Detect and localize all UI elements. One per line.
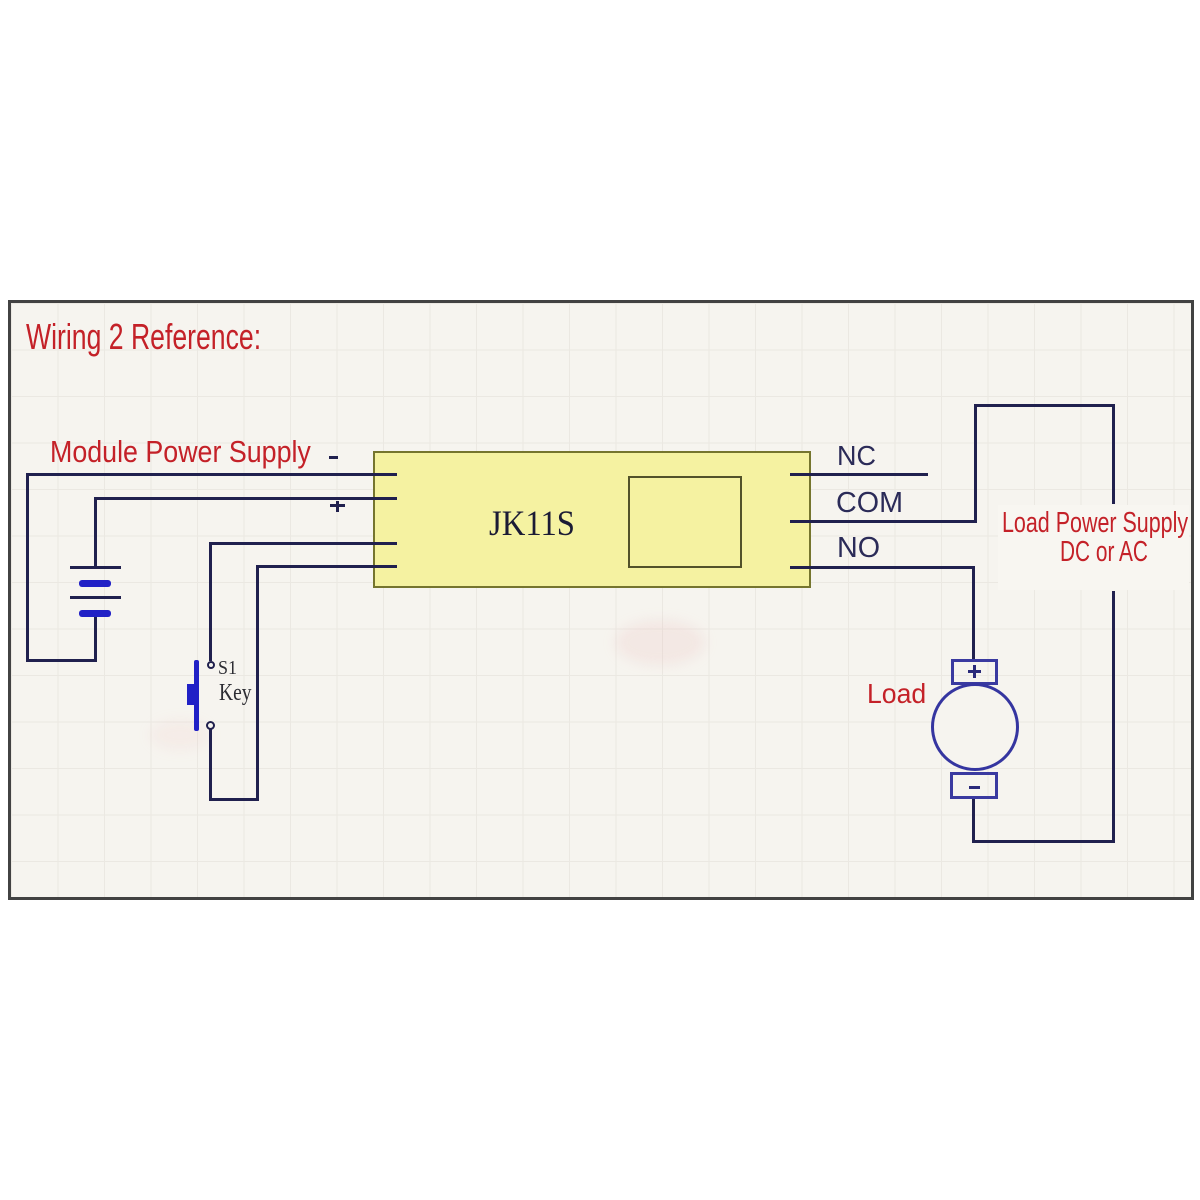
- relay inner rectangle: [628, 476, 742, 568]
- wire pin3 horizontal (to key switch): [209, 542, 397, 545]
- battery top lead: [94, 497, 97, 568]
- motor plus terminal box: [951, 659, 998, 685]
- battery bottom lead: [94, 614, 97, 662]
- label Load: [867, 680, 926, 708]
- wire left vertical: [26, 473, 29, 661]
- pink smudge artifact 2: [150, 720, 210, 750]
- wire motor bottom lead: [972, 797, 975, 843]
- wire bottom-left horizontal: [26, 659, 97, 662]
- wire COM horizontal: [790, 520, 977, 523]
- schematic sheet frame: [8, 300, 1194, 900]
- wire pin4 horizontal: [257, 565, 397, 568]
- label Module Power Supply: [50, 436, 311, 467]
- label JK11S: [489, 505, 575, 541]
- wire NC horizontal: [790, 473, 928, 476]
- label NC: [837, 442, 876, 470]
- switch S1 top contact circle: [207, 661, 215, 669]
- relay module box JK11S: [373, 451, 811, 588]
- motor minus terminal box: [950, 772, 998, 799]
- label Load Power Supply: [998, 505, 1189, 590]
- switch S1 bottom lead: [209, 729, 212, 801]
- wire bottom-right horizontal: [973, 840, 1115, 843]
- motor plus sign: [968, 670, 981, 673]
- wire pin2 horizontal (plus supply): [94, 497, 397, 500]
- wire NO horizontal: [790, 566, 975, 569]
- battery B1 plate 1: [70, 566, 121, 569]
- label NO: [837, 534, 880, 563]
- label COM: [836, 489, 903, 518]
- wire pin1 horizontal (minus supply): [26, 473, 397, 476]
- label S1: [218, 658, 237, 678]
- wire COM riser vertical: [974, 404, 977, 523]
- battery B1 plate 2 (thick): [79, 580, 111, 587]
- minus sign of module supply: [329, 456, 338, 459]
- wire right vertical upper segment: [1112, 404, 1115, 504]
- switch S1 actuator bar: [194, 660, 199, 731]
- switch S1 bottom contact circle: [206, 721, 215, 730]
- battery B1 plate 3: [70, 596, 121, 599]
- wire right vertical of switch loop: [256, 565, 259, 801]
- wire right vertical lower segment: [1112, 591, 1115, 843]
- wire NO drop vertical: [972, 566, 975, 660]
- battery B1 plate 4 (thick): [79, 610, 111, 617]
- switch bottom horizontal wire: [209, 798, 259, 801]
- label Key: [219, 681, 251, 705]
- label DC or AC: [1060, 538, 1148, 567]
- title text: [26, 319, 261, 355]
- motor minus sign: [969, 786, 980, 789]
- switch S1 actuator cap: [187, 684, 195, 705]
- motor body circle: [931, 683, 1019, 771]
- plus sign of module supply: [330, 504, 345, 507]
- wire top-right horizontal: [974, 404, 1115, 407]
- pink smudge artifact: [615, 620, 705, 665]
- switch S1 top lead: [209, 542, 212, 661]
